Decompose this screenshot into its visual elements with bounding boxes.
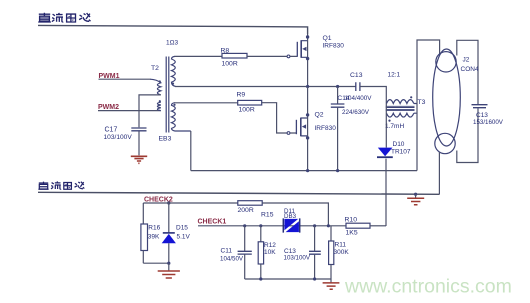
svg-text:R9: R9 [237, 92, 246, 99]
lamp bottom electrode circle [435, 133, 455, 153]
transistor Q2 [287, 87, 309, 171]
ground right of lamp [415, 194, 417, 198]
wire T3 left leg down to D10 [385, 104, 387, 148]
svg-text:PWM2: PWM2 [98, 104, 119, 111]
diode D15 zener [168, 203, 170, 233]
wire lamp bottom to bus [438, 152, 440, 194]
svg-text:IRF830: IRF830 [323, 43, 345, 50]
label DC bus title top (CJK approx) [38, 13, 90, 23]
wire D10 cathode down to R10 [385, 159, 387, 226]
svg-text:T3: T3 [418, 99, 426, 106]
svg-text:103/100V: 103/100V [284, 255, 311, 262]
wire R8 to Q1 gate [247, 55, 297, 57]
svg-text:200R: 200R [238, 207, 254, 214]
junction R11 tap [327, 224, 330, 227]
svg-text:CON4: CON4 [461, 66, 479, 73]
svg-text:104/50V: 104/50V [220, 256, 244, 263]
capacitor C17 [131, 128, 146, 131]
wire C17 to ground [138, 131, 140, 155]
svg-text:D15: D15 [176, 225, 188, 232]
lamp tube ellipse [433, 49, 461, 146]
svg-text:104/400V: 104/400V [345, 95, 373, 102]
lamp connector right pin with C12 [457, 40, 478, 162]
junction C11 tap [243, 224, 246, 227]
junction ground tap on bus [414, 193, 417, 196]
svg-text:100R: 100R [222, 61, 238, 68]
svg-text:12:1: 12:1 [388, 72, 401, 79]
phase dot T3 top right [410, 96, 412, 98]
capacitor C12 (153/1600V) [472, 105, 488, 108]
wire PWM2 [98, 110, 161, 112]
junction R12 bottom [259, 277, 262, 280]
resistor R8 [222, 53, 247, 58]
resistor R11 [330, 226, 332, 241]
junction D15 bottom [167, 262, 170, 265]
svg-text:R10: R10 [345, 217, 358, 224]
junction Q2 source [306, 169, 309, 172]
svg-text:R15: R15 [261, 211, 274, 218]
phase dot T2 left lower [159, 100, 161, 102]
svg-text:D10: D10 [393, 141, 405, 148]
svg-text:1.7mH: 1.7mH [385, 123, 404, 130]
resistor R12 [260, 226, 262, 242]
wire R9 to Q2 gate [262, 103, 297, 133]
phase dot T2 right upper [172, 83, 174, 85]
resistor R10 [346, 223, 370, 228]
svg-text:IRF830: IRF830 [315, 125, 337, 132]
wire bottom DC bus [38, 192, 440, 194]
wire: top DC bus [38, 25, 308, 34]
transformer T2 secondary upper winding [172, 56, 176, 86]
phase dot T2 left upper [159, 80, 161, 82]
lamp connector left pin [417, 40, 440, 171]
svg-text:10K: 10K [264, 249, 276, 256]
wire half-bridge rail (left of C13) [175, 86, 356, 88]
svg-text:103/100V: 103/100V [104, 134, 133, 141]
svg-text:224/630V: 224/630V [342, 109, 370, 116]
ground below D15 [168, 263, 170, 270]
svg-text:1K5: 1K5 [346, 230, 358, 237]
wire R10 to D10 branch [370, 225, 386, 227]
svg-text:EB3: EB3 [159, 136, 172, 143]
svg-text:1Ω3: 1Ω3 [166, 40, 178, 47]
resistor R9 [238, 100, 262, 105]
wire T2 lower to rail [190, 131, 192, 171]
junction R12 tap [259, 224, 262, 227]
wire T2 to R9 [175, 102, 238, 104]
wire CHECK1 [198, 225, 346, 227]
wire R15 to CHECK1 [262, 203, 328, 226]
junction C13b tap [313, 224, 316, 227]
junction CHECK2 [167, 201, 170, 204]
capacitor C14 [337, 87, 339, 104]
capacitor C13 series [356, 82, 360, 91]
svg-text:300K: 300K [334, 249, 350, 256]
svg-text:R8: R8 [221, 48, 230, 55]
wire lower rail [191, 170, 417, 172]
svg-text:C13: C13 [476, 112, 488, 119]
resistor R16 [142, 203, 144, 224]
transistor Q1 [287, 34, 309, 87]
ground below C17 [131, 156, 147, 163]
ground below R11 [330, 279, 332, 283]
svg-text:5.1V: 5.1V [177, 233, 191, 240]
svg-text:CHECK1: CHECK1 [198, 219, 227, 226]
svg-text:Q2: Q2 [315, 112, 324, 119]
junction Q1/Q2 midpoint [306, 85, 309, 88]
wire T2 center tap to C17 [139, 95, 161, 127]
lamp top electrode circle [436, 52, 456, 72]
svg-text:C17: C17 [105, 127, 118, 134]
transformer T2 primary lower winding [157, 102, 160, 110]
svg-text:Q1: Q1 [323, 35, 332, 42]
junction C14 bottom [336, 169, 339, 172]
svg-text:DB3: DB3 [284, 213, 297, 220]
svg-text:R12: R12 [264, 242, 276, 249]
transformer T2 secondary lower winding [172, 103, 191, 131]
wire C14 to lower rail [337, 108, 339, 171]
wire bottom rail of check circuit [245, 278, 331, 280]
svg-text:J2: J2 [463, 57, 470, 64]
transformer T2 primary upper winding [150, 79, 161, 95]
wire CHECK2 [143, 202, 238, 204]
svg-text:T2: T2 [151, 65, 159, 72]
label DC bus title bottom (CJK approx) [38, 182, 84, 190]
svg-text:153/1600V: 153/1600V [473, 119, 504, 126]
transformer T2 core [166, 57, 169, 133]
svg-text:R16: R16 [148, 225, 160, 232]
capacitor C11 [244, 226, 246, 251]
junction C13b bottom [313, 277, 316, 280]
svg-text:www.cntronics.com: www.cntronics.com [344, 276, 512, 298]
svg-text:C11: C11 [221, 248, 233, 255]
wire PWM1 [99, 78, 151, 80]
svg-text:TR107: TR107 [391, 149, 411, 156]
phase dot T2 right lower [173, 104, 175, 106]
wire C13 to T3 [360, 87, 386, 104]
svg-text:100R: 100R [239, 107, 255, 114]
capacitor C13b [314, 226, 316, 251]
junction C14 tap [336, 85, 339, 88]
svg-text:C13: C13 [350, 72, 363, 79]
wire R16/D15 bottom link [143, 262, 169, 264]
svg-text:R11: R11 [335, 242, 347, 249]
transformer T3 windings [386, 100, 417, 117]
wire T2 to R8 [175, 55, 223, 57]
svg-text:39K: 39K [148, 233, 160, 240]
diac D11 DB3 [283, 218, 299, 232]
resistor R15 (200R) [238, 201, 262, 206]
phase dot T3 bottom left [388, 120, 390, 122]
diode D10 [378, 148, 393, 157]
